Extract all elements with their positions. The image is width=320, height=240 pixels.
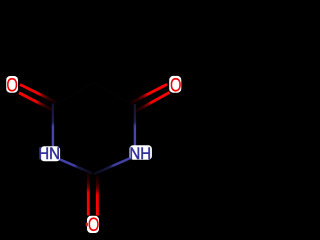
- svg-text:O: O: [6, 73, 17, 95]
- bond C2=O3 double bond right line: [96, 175, 99, 215]
- bond C6=O1 double bond upper line: [20, 85, 57, 103]
- svg-text:HN: HN: [38, 146, 60, 164]
- bond N3-C2: [94, 158, 131, 174]
- bond C4=O2 double bond upper line: [130, 84, 167, 103]
- atom O1 label patch (top-left): [6, 76, 18, 93]
- bond C6-C5 (carbon-carbon, invisible on black): [53, 83, 94, 107]
- bond C2=O3 double bond left line: [87, 172, 90, 216]
- atom N3 label patch (NH): [130, 145, 152, 159]
- svg-text:O: O: [170, 74, 181, 96]
- bond C6-N1: [52, 104, 54, 147]
- svg-text:NH: NH: [129, 146, 151, 164]
- svg-text:O: O: [88, 213, 99, 235]
- atom N1 label patch (HN): [41, 146, 61, 161]
- bond N1-C2: [59, 159, 93, 174]
- bond C6=O1 double bond lower line: [19, 93, 53, 110]
- bond C4-N3: [134, 104, 136, 146]
- atom O3 stray red nub: [86, 223, 88, 227]
- atom O3 label patch (bottom): [87, 216, 99, 233]
- bond C5-C4 (carbon-carbon, invisible on black): [94, 83, 135, 107]
- bond C4=O2 double bond lower line: [135, 92, 170, 111]
- atom O2 label patch (top-right): [169, 76, 181, 93]
